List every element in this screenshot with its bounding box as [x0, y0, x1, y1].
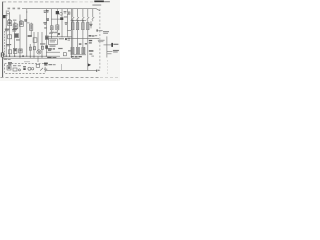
label x44 y27	[44, 27, 47, 28]
label below relay	[50, 46, 56, 47]
R5 inner mark	[30, 25, 32, 30]
R6 inner mark	[51, 26, 53, 29]
label right of P1	[64, 11, 67, 12]
label x44 top	[44, 10, 45, 11]
label x12 y29	[12, 29, 17, 30]
C2 bottom bar	[13, 28, 17, 29]
enclosure label	[8, 62, 12, 63]
wire x61.7	[61, 64, 63, 70]
capacitor C1	[8, 21, 12, 26]
switch S5	[92, 17, 94, 20]
label right of bar	[113, 44, 118, 45]
C1 inner mark	[8, 22, 11, 25]
switch S1	[72, 17, 74, 20]
junction x20	[19, 56, 20, 57]
wire x42	[41, 32, 43, 58]
resistor R2	[76, 23, 78, 30]
wire x38	[37, 32, 39, 62]
resistor R9	[33, 38, 37, 43]
left border frame	[2, 2, 4, 78]
enclosure dashed box	[5, 63, 46, 73]
subtitle text	[92, 4, 101, 5]
resistor R11	[76, 47, 79, 53]
label x91 y56	[91, 56, 94, 57]
capacitor C7	[13, 48, 17, 53]
label x89 y50 dark	[89, 50, 94, 51]
dark box x45 y45	[45, 45, 48, 48]
label above C3	[20, 20, 23, 21]
C3 inner mark	[20, 22, 23, 25]
label x68 y50	[68, 50, 71, 51]
title block text	[94, 1, 104, 3]
wire x20	[19, 15, 21, 59]
right dashed net	[99, 9, 101, 70]
bank1 fills	[72, 23, 73, 29]
wire x34	[33, 32, 35, 58]
wire x46.3	[45, 9, 47, 57]
capacitor C11	[29, 47, 31, 50]
capacitor C6	[8, 50, 11, 54]
mid rail y19	[51, 18, 62, 20]
IC U3 dark blob	[60, 17, 63, 20]
label x79 y43	[79, 43, 82, 44]
resistor R3	[82, 23, 84, 30]
capacitor C2	[13, 24, 18, 29]
bus rail y56.2	[3, 55, 60, 57]
junction x46.3	[46, 56, 47, 57]
C2 inner mark	[14, 25, 17, 27]
resistor R7	[56, 25, 59, 30]
relay K1	[49, 39, 58, 45]
label x24 y19	[24, 19, 27, 20]
junction x42	[41, 56, 42, 57]
IC U1 body	[56, 11, 59, 14]
label x16 y40	[16, 39, 20, 40]
dashed net left	[3, 31, 5, 55]
wire x62	[61, 9, 63, 37]
label x4 y59	[4, 59, 7, 60]
label x107 y53	[107, 53, 111, 54]
resistor R12	[82, 47, 85, 53]
capacitor C13	[41, 46, 43, 49]
wire x6	[5, 10, 7, 56]
switch S6	[40, 68, 43, 71]
label x28 y35 dark	[28, 35, 32, 36]
wire x9.6	[9, 12, 11, 56]
capacitor C5 fill	[15, 34, 18, 37]
label row y31.7	[50, 32, 54, 33]
top border frame	[3, 1, 74, 3]
label x113 y50	[113, 50, 119, 51]
dashed rail stub left	[8, 7, 23, 9]
label x18 y65	[18, 65, 21, 66]
label C1 top	[45, 10, 48, 11]
mid rail y36.8	[46, 36, 72, 38]
text and dark component marks	[1, 1, 119, 72]
junction x6	[6, 56, 7, 57]
resistor R5	[30, 24, 33, 30]
capacitor C3	[19, 22, 23, 27]
node A	[72, 20, 73, 21]
wire y70.4	[45, 69, 97, 71]
capacitor C12	[33, 47, 35, 50]
resistor R4	[87, 23, 89, 30]
marks x7 y13	[7, 13, 10, 14]
resistor R1	[72, 23, 74, 30]
right branch lower wire	[107, 50, 113, 52]
diode D2 box	[45, 36, 48, 40]
node B	[77, 20, 78, 21]
label above C2	[14, 23, 17, 24]
junction x9.6	[9, 56, 10, 57]
wire x26.8	[26, 9, 28, 57]
diode D3 box	[63, 53, 66, 56]
bank drop x92.8	[92, 9, 94, 22]
bank2 fills	[72, 48, 74, 53]
label 1b x96 y29	[96, 29, 98, 31]
wire x57.3	[56, 9, 58, 37]
bank drop x87.8 long	[87, 9, 89, 71]
resistor R10	[71, 47, 74, 53]
junction dots on bus	[6, 12, 63, 58]
label TP right rail dark	[89, 35, 92, 36]
wire tick to R5	[27, 22, 30, 24]
label x98 y40	[98, 40, 105, 41]
junction x14.7	[14, 56, 15, 57]
bank drop x82.9	[82, 9, 84, 48]
label x6 y44	[6, 44, 11, 45]
connector J1	[3, 15, 6, 18]
wire x51.4	[50, 9, 52, 39]
switch S3	[82, 17, 84, 20]
rail below bank2	[71, 54, 87, 56]
corner label x44 dark	[44, 63, 48, 64]
polarity bar	[111, 43, 113, 47]
label b x23 y66	[23, 66, 26, 67]
bank drop x72.8	[72, 9, 74, 48]
flag marker	[88, 63, 91, 66]
transistor Q1	[37, 50, 41, 54]
label above C1	[8, 19, 11, 20]
junction x23	[22, 55, 23, 57]
diode D1	[90, 21, 92, 28]
lamp LA2	[31, 68, 33, 70]
D2 fill	[46, 36, 48, 39]
bottom border frame	[1, 76, 101, 78]
junction x34	[33, 56, 34, 57]
junction mid rail	[50, 35, 53, 38]
wire x14.7	[14, 22, 16, 57]
switch S2	[77, 17, 79, 20]
label R x48 dark	[48, 48, 52, 49]
relay K1 label	[50, 40, 56, 41]
trimmer box	[67, 12, 70, 14]
bank drop x77.6	[77, 9, 79, 48]
label x43 y22	[43, 22, 47, 23]
wire x31.2	[30, 23, 31, 59]
resistor R6	[50, 26, 53, 30]
label above relay	[49, 33, 53, 34]
capacitor C10	[13, 68, 17, 71]
wire y61.8	[24, 61, 30, 63]
label right of U3	[64, 16, 68, 17]
label x40 y43	[40, 43, 45, 44]
junction x26.8	[26, 56, 27, 57]
label x5 y29	[5, 29, 9, 30]
label x13 y65	[13, 65, 16, 66]
wire x67.4	[66, 9, 68, 37]
R7 inner mark	[56, 26, 58, 29]
tick x96 y70	[96, 70, 97, 72]
connector J2	[1, 53, 4, 58]
tick marks x8 y11	[7, 11, 9, 12]
label x44 y69	[44, 69, 47, 70]
capacitor C9 mark	[19, 50, 21, 52]
capacitor C4	[8, 35, 12, 39]
switch S4	[87, 17, 89, 20]
label row y57	[47, 57, 51, 58]
tap rail with node circles	[71, 20, 87, 22]
bus rail y58.2	[3, 57, 71, 59]
relay contact K1a	[36, 64, 39, 67]
label right of relay	[59, 38, 64, 39]
pilot lamp LA3	[19, 69, 21, 71]
paper background	[0, 0, 120, 81]
capacitor C7 mark	[14, 49, 16, 51]
junction x26.8 top	[26, 12, 27, 13]
rail y52.2	[46, 51, 60, 53]
label row y56 under bank2	[71, 56, 74, 57]
right branch vertical	[106, 36, 108, 57]
junction x30.2	[30, 56, 31, 57]
capacitor C5	[14, 34, 18, 38]
potentiometer P1	[60, 12, 63, 15]
wire x71.3	[67, 9, 71, 59]
label x58 y48	[58, 48, 62, 49]
node C	[82, 20, 83, 21]
top supply rail	[22, 9, 100, 11]
capacitor C9	[19, 49, 23, 53]
label x46 y18 dark	[47, 18, 49, 19]
rail y40.2	[71, 38, 100, 40]
IC U2 box	[7, 66, 11, 71]
tick at x6 y15.5	[5, 15, 7, 17]
right branch upper wire	[104, 44, 112, 46]
label x103 y31	[103, 31, 109, 32]
label x13 y19	[13, 20, 16, 21]
IC U2 mark	[8, 66, 10, 69]
lamp LA1	[28, 67, 31, 70]
label x65 y22	[65, 22, 68, 23]
